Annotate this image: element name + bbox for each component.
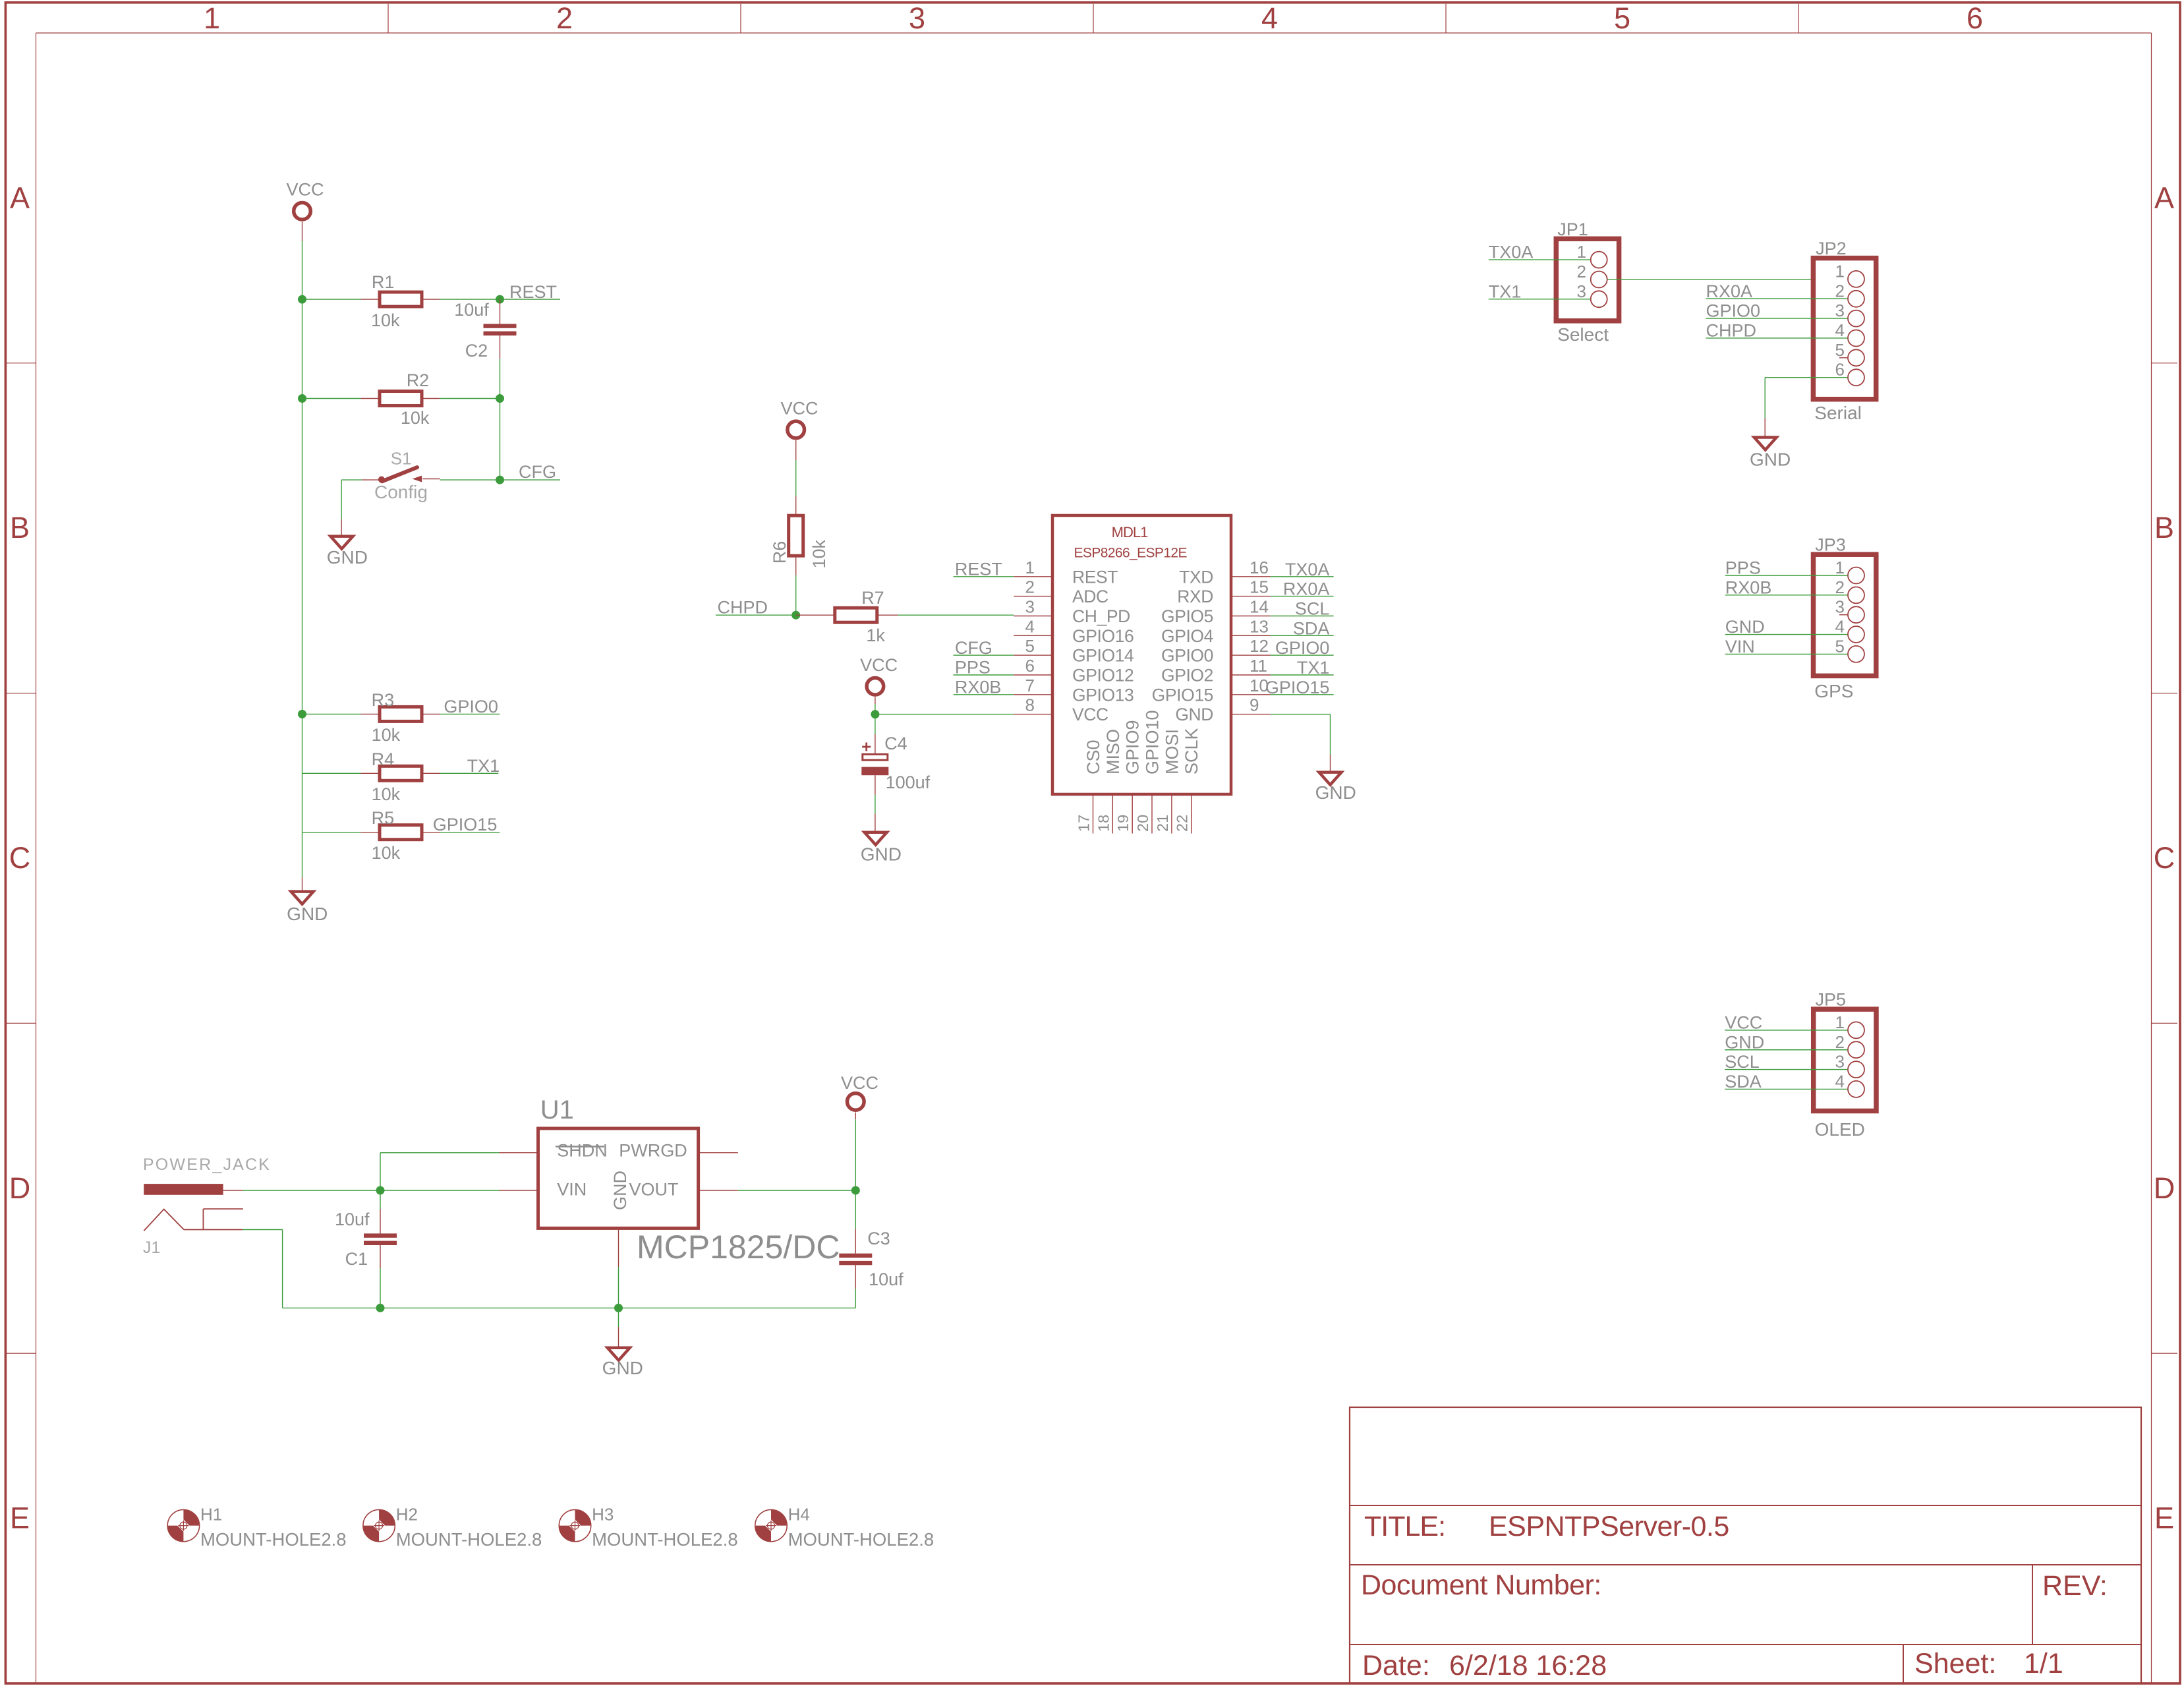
svg-text:CHPD: CHPD bbox=[718, 598, 768, 618]
connector JP1 Select bbox=[1556, 219, 1619, 345]
wire R3 row down to R4 row bbox=[302, 714, 303, 773]
svg-text:A: A bbox=[10, 181, 30, 214]
svg-text:TX1: TX1 bbox=[467, 756, 500, 776]
pin 9 (GND) bbox=[1175, 695, 1271, 725]
svg-text:1: 1 bbox=[1577, 242, 1586, 262]
svg-text:GPIO4: GPIO4 bbox=[1161, 626, 1213, 646]
wire VCC to pin8 junction bbox=[875, 697, 876, 714]
svg-text:GPIO0: GPIO0 bbox=[1161, 646, 1213, 666]
net label TX1 (R4) bbox=[440, 756, 500, 776]
net label GPIO15 (pin 10) bbox=[1265, 678, 1334, 697]
svg-text:TX0A: TX0A bbox=[1285, 560, 1330, 579]
svg-text:2: 2 bbox=[556, 1, 573, 35]
wire S1 left terminal down to ground bbox=[341, 480, 342, 537]
svg-text:3: 3 bbox=[1577, 281, 1586, 301]
svg-text:D: D bbox=[2154, 1171, 2175, 1205]
svg-text:GND: GND bbox=[1315, 782, 1356, 803]
ground GND (pin9) bbox=[1315, 772, 1356, 803]
svg-text:R7: R7 bbox=[861, 588, 884, 608]
mount hole H4 bbox=[755, 1504, 934, 1550]
svg-text:S1: S1 bbox=[391, 449, 412, 469]
svg-text:C: C bbox=[9, 841, 31, 875]
pin 6 (GPIO12) bbox=[1014, 656, 1134, 685]
svg-text:TX1: TX1 bbox=[1297, 658, 1330, 678]
net label VIN (JP3 pin5) bbox=[1725, 637, 1848, 656]
svg-text:RX0B: RX0B bbox=[1725, 577, 1772, 597]
svg-text:REV:: REV: bbox=[2042, 1570, 2108, 1602]
svg-text:10k: 10k bbox=[371, 310, 400, 330]
capacitor C4 100uf (polarized) bbox=[861, 714, 930, 795]
svg-text:5: 5 bbox=[1614, 1, 1630, 35]
svg-text:CS0: CS0 bbox=[1083, 740, 1103, 774]
wire rail to C3 bbox=[619, 1307, 856, 1308]
svg-text:3: 3 bbox=[909, 1, 925, 35]
svg-text:ESP8266_ESP12E: ESP8266_ESP12E bbox=[1074, 545, 1188, 560]
ground GND (below S1) bbox=[327, 537, 368, 568]
svg-text:POWER_JACK: POWER_JACK bbox=[143, 1155, 271, 1174]
svg-text:U1: U1 bbox=[540, 1095, 574, 1124]
svg-text:GND: GND bbox=[1175, 705, 1213, 724]
svg-text:E: E bbox=[10, 1501, 30, 1535]
svg-text:GPIO2: GPIO2 bbox=[1161, 666, 1213, 685]
svg-text:18: 18 bbox=[1095, 815, 1112, 832]
svg-text:JP3: JP3 bbox=[1815, 535, 1846, 555]
svg-text:MOUNT-HOLE2.8: MOUNT-HOLE2.8 bbox=[788, 1529, 934, 1550]
pin 21 (MOSI) bbox=[1154, 729, 1182, 834]
svg-text:GPIO5: GPIO5 bbox=[1161, 606, 1213, 626]
svg-text:6: 6 bbox=[1835, 360, 1845, 380]
svg-text:R6: R6 bbox=[770, 541, 790, 564]
svg-text:TXD: TXD bbox=[1179, 567, 1213, 587]
resistor R5 10k bbox=[302, 808, 440, 863]
svg-text:6/2/18 16:28: 6/2/18 16:28 bbox=[1449, 1650, 1607, 1681]
svg-text:SCL: SCL bbox=[1295, 599, 1330, 619]
net label RX0A (pin 15) bbox=[1271, 579, 1334, 599]
power symbol VCC (above R6) bbox=[780, 399, 818, 438]
pin 13 (GPIO4) bbox=[1161, 616, 1271, 646]
regulator U1 MCP1825/DC bbox=[538, 1095, 840, 1266]
svg-text:VIN: VIN bbox=[1725, 637, 1755, 656]
svg-text:MOUNT-HOLE2.8: MOUNT-HOLE2.8 bbox=[592, 1529, 738, 1550]
net label SCL (pin 14) bbox=[1271, 599, 1334, 619]
wire VCC to R1 junction (vertical) bbox=[302, 222, 303, 300]
resistor R7 1k bbox=[796, 588, 898, 645]
wire C1 to bottom rail bbox=[380, 1268, 381, 1308]
node junction VCC/C4/pin8 bbox=[871, 710, 879, 718]
svg-text:10uf: 10uf bbox=[454, 300, 489, 320]
power symbol VCC (top-left) bbox=[286, 180, 324, 220]
svg-text:C4: C4 bbox=[884, 734, 907, 753]
svg-text:SCLK: SCLK bbox=[1182, 728, 1201, 774]
svg-text:10k: 10k bbox=[809, 539, 829, 568]
svg-text:B: B bbox=[2154, 511, 2174, 544]
wire R1 to REST node bbox=[440, 299, 500, 300]
svg-text:2: 2 bbox=[1835, 1032, 1845, 1052]
svg-text:REST: REST bbox=[955, 560, 1002, 579]
wire junction down to R3 row bbox=[302, 399, 303, 714]
node junction VOUT/VCC/C3 bbox=[851, 1186, 860, 1195]
connector JP5 OLED bbox=[1814, 990, 1876, 1140]
wire junction up and to SHDN pin bbox=[380, 1153, 538, 1190]
svg-text:H4: H4 bbox=[788, 1504, 810, 1524]
wire C4 to ground bbox=[875, 795, 876, 832]
net label CHPD (JP2 pin4) bbox=[1706, 320, 1848, 340]
mount hole H3 bbox=[559, 1504, 737, 1550]
resistor R6 10k bbox=[770, 515, 829, 575]
wire MDL1 pin9 GND to ground bbox=[1271, 714, 1331, 772]
svg-text:17: 17 bbox=[1076, 815, 1093, 832]
power symbol VCC (output) bbox=[841, 1073, 878, 1110]
pin 14 (GPIO5) bbox=[1161, 597, 1271, 627]
net label TX1 (JP1 pin3) bbox=[1489, 281, 1590, 301]
wire VCC to VOUT junction bbox=[855, 1113, 856, 1190]
net label CFG (pin5) bbox=[954, 638, 1014, 658]
svg-text:3: 3 bbox=[1835, 1052, 1845, 1072]
pin 4 (GPIO16) bbox=[1014, 616, 1134, 646]
wire down to CFG row bbox=[500, 399, 501, 481]
net label GPIO0 (JP2 pin3) bbox=[1706, 301, 1848, 321]
pin 22 (SCLK) bbox=[1174, 728, 1202, 833]
svg-text:PPS: PPS bbox=[1725, 558, 1761, 578]
svg-text:Serial: Serial bbox=[1814, 403, 1862, 423]
wire VOUT to VCC junction bbox=[699, 1190, 856, 1191]
pin 18 (MISO) bbox=[1095, 729, 1123, 834]
svg-text:H2: H2 bbox=[396, 1504, 418, 1524]
svg-text:GND: GND bbox=[1750, 450, 1791, 470]
svg-text:H3: H3 bbox=[592, 1504, 614, 1524]
svg-text:J1: J1 bbox=[143, 1238, 160, 1257]
svg-text:GPIO13: GPIO13 bbox=[1072, 685, 1134, 705]
svg-text:GPIO16: GPIO16 bbox=[1072, 626, 1134, 646]
svg-text:1: 1 bbox=[1025, 558, 1035, 577]
net label RX0A (JP2 pin2) bbox=[1706, 281, 1848, 301]
node junction CFG bbox=[496, 476, 504, 484]
svg-text:CFG: CFG bbox=[519, 462, 556, 482]
resistor R3 10k bbox=[302, 690, 440, 745]
wire S1 to CFG node bbox=[440, 479, 500, 481]
svg-text:15: 15 bbox=[1250, 577, 1269, 597]
svg-text:GPIO14: GPIO14 bbox=[1072, 646, 1134, 666]
resistor R1 10k bbox=[302, 272, 440, 330]
node junction VIN/C1 bbox=[376, 1186, 385, 1195]
svg-text:TX0A: TX0A bbox=[1489, 243, 1534, 262]
pin 8 (VCC) bbox=[1014, 695, 1108, 725]
node junction R3 row left bbox=[298, 710, 306, 718]
node junction VCC/R1 bbox=[298, 295, 306, 304]
power symbol VCC (pin8) bbox=[860, 655, 898, 695]
svg-text:ADC: ADC bbox=[1072, 587, 1108, 606]
net label PPS (pin6) bbox=[954, 658, 1014, 678]
ground GND (below R5) bbox=[287, 892, 328, 924]
net label TX0A (JP1 pin1) bbox=[1489, 243, 1590, 262]
svg-text:8: 8 bbox=[1025, 695, 1035, 715]
node junction REST bbox=[496, 295, 504, 304]
svg-text:VIN: VIN bbox=[557, 1180, 587, 1200]
svg-text:PWRGD: PWRGD bbox=[619, 1141, 687, 1161]
node junction CHPD bbox=[791, 611, 800, 620]
pin 1 (REST) bbox=[1014, 558, 1118, 587]
svg-text:6: 6 bbox=[1967, 1, 1983, 35]
svg-text:C3: C3 bbox=[867, 1229, 890, 1248]
svg-text:REST: REST bbox=[509, 282, 557, 302]
pin stub JP2 pin5 bbox=[1839, 357, 1848, 359]
pin 10 (GPIO15) bbox=[1152, 676, 1271, 705]
module MDL1 ESP8266_ESP12E bbox=[1052, 515, 1231, 794]
wire JP1 pin2 to JP2 pin1 bbox=[1607, 279, 1847, 280]
pin 17 (CS0) bbox=[1076, 740, 1104, 833]
net label CFG bbox=[500, 462, 561, 482]
svg-text:GPS: GPS bbox=[1814, 681, 1853, 701]
svg-text:13: 13 bbox=[1250, 616, 1269, 636]
pin stub PWRGD (unconnected) bbox=[699, 1152, 738, 1153]
svg-text:1: 1 bbox=[1835, 1012, 1845, 1032]
svg-text:22: 22 bbox=[1174, 815, 1191, 832]
svg-text:21: 21 bbox=[1154, 815, 1171, 832]
svg-text:11: 11 bbox=[1250, 656, 1267, 676]
node junction R2 row left bbox=[298, 394, 306, 403]
svg-text:10k: 10k bbox=[372, 784, 401, 804]
mount hole H2 bbox=[363, 1504, 542, 1550]
svg-text:GND: GND bbox=[287, 904, 328, 924]
svg-text:Config: Config bbox=[374, 482, 428, 502]
svg-text:9: 9 bbox=[1250, 695, 1259, 715]
svg-text:Document Number:: Document Number: bbox=[1361, 1569, 1601, 1601]
svg-text:VCC: VCC bbox=[286, 180, 324, 200]
node junction C1/rail bbox=[376, 1304, 385, 1312]
svg-text:VCC: VCC bbox=[841, 1073, 878, 1093]
wire R6 to CHPD node bbox=[795, 575, 797, 615]
svg-text:JP1: JP1 bbox=[1557, 219, 1588, 239]
svg-text:CH_PD: CH_PD bbox=[1072, 606, 1130, 626]
resistor R4 10k bbox=[302, 749, 440, 804]
net label SCL (JP5 pin3) bbox=[1725, 1052, 1847, 1072]
svg-text:GPIO12: GPIO12 bbox=[1072, 666, 1134, 685]
svg-text:VCC: VCC bbox=[780, 399, 818, 419]
pin 7 (GPIO13) bbox=[1014, 676, 1134, 705]
svg-text:H1: H1 bbox=[200, 1504, 222, 1524]
svg-text:Date:: Date: bbox=[1362, 1650, 1430, 1681]
svg-text:5: 5 bbox=[1025, 636, 1035, 656]
svg-text:MOUNT-HOLE2.8: MOUNT-HOLE2.8 bbox=[200, 1529, 347, 1550]
net label RX0B (JP3 pin2) bbox=[1725, 577, 1848, 597]
svg-text:OLED: OLED bbox=[1815, 1119, 1865, 1140]
svg-text:VCC: VCC bbox=[1072, 705, 1108, 724]
title block bbox=[1350, 1407, 2141, 1683]
net label GPIO0 (pin 12) bbox=[1271, 638, 1334, 658]
svg-text:10k: 10k bbox=[372, 843, 401, 863]
svg-text:10k: 10k bbox=[372, 725, 401, 745]
svg-text:RXD: RXD bbox=[1177, 587, 1213, 606]
svg-text:CFG: CFG bbox=[955, 638, 992, 658]
svg-text:10uf: 10uf bbox=[335, 1209, 370, 1229]
wire junction to VIN pin bbox=[380, 1190, 538, 1191]
svg-text:MOUNT-HOLE2.8: MOUNT-HOLE2.8 bbox=[396, 1529, 542, 1550]
svg-text:R4: R4 bbox=[372, 749, 395, 769]
svg-text:R5: R5 bbox=[372, 808, 395, 828]
svg-text:GPIO10: GPIO10 bbox=[1143, 710, 1163, 774]
svg-text:R2: R2 bbox=[407, 370, 430, 390]
net label TX0A (pin 16) bbox=[1271, 560, 1334, 579]
ground GND (JP2) bbox=[1750, 438, 1791, 470]
svg-text:GND: GND bbox=[327, 547, 368, 568]
svg-text:B: B bbox=[10, 511, 30, 544]
net label GPIO0 (R3) bbox=[440, 697, 500, 716]
net label SDA (pin 13) bbox=[1271, 618, 1334, 638]
svg-text:3: 3 bbox=[1025, 597, 1035, 617]
net label REST bbox=[500, 282, 561, 302]
svg-text:20: 20 bbox=[1134, 815, 1151, 832]
net label GND (JP3 pin4) bbox=[1725, 617, 1848, 637]
svg-text:TX1: TX1 bbox=[1489, 281, 1522, 301]
capacitor C2 10uf bbox=[454, 299, 516, 361]
net label TX1 (pin 11) bbox=[1271, 658, 1334, 678]
svg-text:C: C bbox=[2154, 841, 2175, 875]
net label PPS (JP3 pin1) bbox=[1725, 558, 1848, 578]
capacitor C3 10uf bbox=[839, 1190, 904, 1289]
svg-text:1k: 1k bbox=[866, 626, 885, 645]
net label REST (pin1) bbox=[954, 560, 1014, 579]
svg-text:VCC: VCC bbox=[1725, 1012, 1762, 1032]
svg-text:TITLE:: TITLE: bbox=[1364, 1511, 1445, 1542]
svg-text:CHPD: CHPD bbox=[1706, 320, 1757, 340]
svg-text:1: 1 bbox=[204, 1, 220, 35]
svg-text:4: 4 bbox=[1025, 616, 1035, 636]
svg-text:6: 6 bbox=[1025, 656, 1035, 676]
svg-text:2: 2 bbox=[1025, 577, 1035, 597]
wire C2 to R2 row bbox=[500, 359, 501, 398]
svg-text:PPS: PPS bbox=[955, 658, 991, 678]
svg-text:SDA: SDA bbox=[1725, 1072, 1762, 1092]
wire VCC to R6 bbox=[795, 440, 797, 515]
svg-text:2: 2 bbox=[1577, 262, 1586, 281]
wire bottom rail bbox=[380, 1307, 619, 1308]
svg-text:16: 16 bbox=[1250, 558, 1269, 577]
svg-text:12: 12 bbox=[1250, 636, 1269, 656]
capacitor C1 10uf bbox=[335, 1190, 397, 1269]
wire R2 to CFG column bbox=[440, 398, 500, 399]
connector JP2 Serial bbox=[1813, 239, 1876, 423]
svg-text:GND: GND bbox=[1725, 617, 1765, 637]
svg-text:1: 1 bbox=[1835, 558, 1845, 577]
svg-text:R3: R3 bbox=[372, 690, 395, 710]
svg-text:3: 3 bbox=[1835, 301, 1845, 320]
pin 2 (ADC) bbox=[1014, 577, 1108, 607]
svg-text:C1: C1 bbox=[345, 1249, 368, 1269]
node junction U1 GND/rail bbox=[614, 1304, 623, 1312]
svg-text:SCL: SCL bbox=[1725, 1052, 1760, 1072]
net label VCC (JP5 pin1) bbox=[1725, 1012, 1847, 1032]
svg-text:1: 1 bbox=[1835, 261, 1845, 281]
svg-text:MOSI: MOSI bbox=[1162, 729, 1182, 774]
connector J1 POWER_JACK bbox=[143, 1155, 271, 1257]
ground GND (power) bbox=[602, 1348, 643, 1378]
resistor R2 10k bbox=[302, 370, 440, 428]
wire jack pin to VIN junction bbox=[243, 1190, 380, 1191]
wire JP2 pin6 to ground bbox=[1765, 378, 1847, 438]
svg-text:19: 19 bbox=[1114, 815, 1132, 832]
pin 15 (RXD) bbox=[1177, 577, 1271, 607]
svg-text:100uf: 100uf bbox=[886, 772, 931, 792]
svg-text:Select: Select bbox=[1557, 324, 1609, 345]
svg-text:REST: REST bbox=[1072, 567, 1118, 587]
pin 19 (GPIO9) bbox=[1114, 720, 1143, 833]
wire R4 row down to R5 row bbox=[302, 773, 303, 832]
svg-text:10uf: 10uf bbox=[869, 1269, 904, 1289]
wire jack sleeve to bottom rail bbox=[243, 1230, 380, 1308]
svg-text:GPIO15: GPIO15 bbox=[433, 815, 498, 834]
pin 20 (GPIO10) bbox=[1134, 710, 1163, 833]
pin 5 (GPIO14) bbox=[1014, 636, 1134, 666]
svg-text:R1: R1 bbox=[372, 272, 395, 292]
svg-text:4: 4 bbox=[1835, 320, 1845, 340]
connector JP3 GPS bbox=[1814, 535, 1876, 702]
svg-text:GPIO9: GPIO9 bbox=[1123, 720, 1143, 774]
svg-text:RX0B: RX0B bbox=[955, 678, 1002, 697]
svg-text:MDL1: MDL1 bbox=[1112, 524, 1148, 540]
svg-text:RX0A: RX0A bbox=[1706, 281, 1753, 301]
pin 16 (TXD) bbox=[1179, 558, 1271, 587]
pin 3 (CH_PD) bbox=[1014, 597, 1130, 627]
svg-text:GND: GND bbox=[1725, 1032, 1764, 1052]
svg-text:5: 5 bbox=[1835, 636, 1845, 656]
wire rail junction down to ground bbox=[618, 1308, 619, 1347]
svg-text:4: 4 bbox=[1835, 617, 1845, 637]
net label RX0B (pin7) bbox=[954, 678, 1014, 697]
svg-text:JP2: JP2 bbox=[1816, 239, 1847, 258]
svg-text:GPIO15: GPIO15 bbox=[1265, 678, 1330, 697]
svg-text:GND: GND bbox=[602, 1358, 643, 1378]
svg-text:Sheet:: Sheet: bbox=[1914, 1648, 1996, 1679]
wire junction to MDL1 pin 8 bbox=[875, 714, 1014, 715]
wire C3 to bottom rail corner bbox=[855, 1289, 856, 1308]
svg-text:VCC: VCC bbox=[860, 655, 898, 675]
svg-text:ESPNTPServer-0.5: ESPNTPServer-0.5 bbox=[1489, 1511, 1729, 1542]
svg-text:E: E bbox=[2154, 1501, 2174, 1535]
svg-text:4: 4 bbox=[1835, 1071, 1845, 1091]
pin 12 (GPIO0) bbox=[1161, 636, 1271, 666]
svg-text:GND: GND bbox=[610, 1171, 630, 1210]
svg-text:GPIO0: GPIO0 bbox=[1706, 301, 1761, 321]
wire U1 GND pin to rail bbox=[618, 1228, 619, 1308]
svg-text:1/1: 1/1 bbox=[2024, 1648, 2063, 1679]
svg-text:4: 4 bbox=[1261, 1, 1278, 35]
svg-text:GPIO0: GPIO0 bbox=[444, 697, 498, 716]
svg-text:2: 2 bbox=[1835, 281, 1845, 301]
svg-text:5: 5 bbox=[1835, 340, 1845, 360]
ground GND (below C4) bbox=[861, 832, 902, 865]
svg-text:GND: GND bbox=[861, 844, 902, 865]
switch S1 Config bbox=[341, 449, 440, 503]
svg-text:SDA: SDA bbox=[1293, 618, 1330, 638]
svg-text:RX0A: RX0A bbox=[1283, 579, 1330, 599]
wire R5 row down to ground bbox=[302, 832, 303, 892]
pin 11 (GPIO2) bbox=[1161, 656, 1271, 685]
node junction R2/C2 bbox=[496, 394, 504, 403]
svg-text:MCP1825/DC: MCP1825/DC bbox=[637, 1229, 840, 1266]
svg-text:GPIO0: GPIO0 bbox=[1275, 638, 1330, 658]
wire R7 to MDL1 pin 3 bbox=[898, 614, 1014, 616]
net label GPIO15 (R5) bbox=[433, 815, 500, 834]
svg-text:D: D bbox=[9, 1171, 31, 1205]
svg-text:SHDN: SHDN bbox=[557, 1141, 608, 1161]
svg-text:14: 14 bbox=[1250, 597, 1269, 617]
svg-text:VOUT: VOUT bbox=[629, 1180, 678, 1200]
net label SDA (JP5 pin4) bbox=[1725, 1072, 1847, 1092]
svg-text:C2: C2 bbox=[465, 341, 488, 361]
net label CHPD bbox=[716, 598, 796, 618]
svg-text:3: 3 bbox=[1835, 597, 1845, 617]
svg-text:10k: 10k bbox=[401, 408, 430, 428]
